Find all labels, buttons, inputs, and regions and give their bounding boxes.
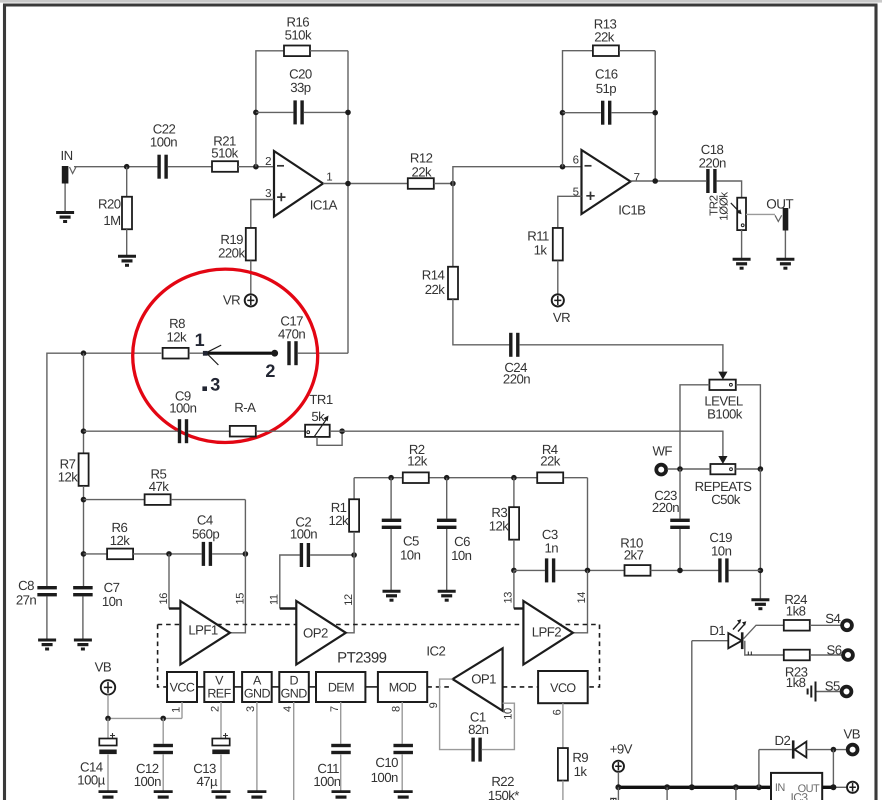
node junction line A / left vertical: [81, 350, 87, 356]
svg-text:C8: C8: [18, 578, 34, 593]
connector WF: [656, 465, 666, 475]
svg-text:560p: 560p: [192, 526, 219, 541]
IC2 dashed outline right edge: [588, 625, 600, 687]
node junction C2/R1: [351, 552, 357, 558]
pin box D GND: [279, 672, 309, 702]
regulator IC3: [771, 773, 822, 800]
wire OP1 pin10 loop right: [482, 703, 515, 749]
wire C23 to R10 line: [679, 529, 681, 570]
wire VB feed down to regulator output: [832, 750, 834, 788]
wire pin14 drop to LPF2 output: [573, 570, 588, 632]
resistor R5: [145, 494, 171, 505]
pin 3 stub: [256, 702, 258, 791]
svg-text:82n: 82n: [468, 722, 489, 737]
svg-text:OUT: OUT: [766, 197, 793, 212]
resistor R2: [403, 472, 429, 483]
resistor R21: [212, 161, 238, 172]
potentiometer REPEATS C50k: [710, 464, 735, 474]
wire C23 stem: [679, 469, 681, 519]
TR1 wiper loop wire: [317, 431, 342, 445]
wire C3 left: [514, 569, 545, 571]
capacitor C7: [73, 586, 93, 589]
wire C6 to ground: [446, 529, 448, 591]
wire LEVEL left end down: [680, 385, 709, 469]
svg-text:47k: 47k: [149, 479, 170, 494]
wire line B to REPEATS pot: [330, 431, 723, 456]
resistor R12: [408, 178, 434, 189]
svg-text:DEM: DEM: [328, 681, 354, 695]
svg-text:10n: 10n: [711, 544, 732, 559]
svg-text:10n: 10n: [451, 548, 472, 563]
capacitor C23: [670, 519, 690, 522]
svg-text:V: V: [215, 673, 224, 687]
svg-text:C7: C7: [104, 580, 120, 595]
node junction VB/C14: [105, 716, 111, 722]
svg-text:WF: WF: [652, 444, 672, 459]
node junction after R12: [450, 181, 456, 187]
resistor R7: [79, 453, 89, 486]
svg-text:10n: 10n: [102, 594, 123, 609]
pin 8 stub: [401, 702, 403, 744]
wire IN to junction: [74, 166, 157, 168]
svg-text:LPF1: LPF1: [188, 622, 218, 637]
svg-text:1k8: 1k8: [786, 604, 806, 619]
internal block OP1: [453, 648, 503, 711]
ground under C6: [438, 591, 456, 600]
ground under C14 (partial): [99, 792, 118, 798]
capacitor C6: [437, 519, 457, 522]
svg-text:12k: 12k: [328, 513, 349, 528]
wire R10 to C19: [651, 569, 719, 571]
svg-text:7: 7: [329, 706, 341, 712]
svg-text:2: 2: [265, 361, 275, 381]
node junction C16 left: [560, 110, 566, 116]
op-amp IC1B: [582, 150, 631, 214]
capacitor C18: [706, 169, 709, 193]
node junction pin14: [585, 568, 591, 574]
node junction C19 right: [758, 568, 764, 574]
ground under C11 (partial): [332, 792, 351, 798]
TR1 wiper arrow: [314, 420, 326, 438]
svg-text:S5: S5: [825, 679, 840, 694]
wire REPEATS right end: [735, 468, 760, 470]
node junction bus 4: [733, 784, 739, 790]
wire WF to REPEATS: [667, 468, 710, 470]
connector S5: [842, 687, 852, 697]
capacitor C8: [37, 586, 57, 589]
connector S6: [843, 650, 853, 660]
wire D1 anode feed: [692, 640, 729, 642]
trimmer TR2 100k: [737, 198, 746, 230]
wire OP1 pin9 loop left: [440, 679, 472, 750]
bus stub 1: [617, 787, 619, 800]
wire R5 line left: [84, 499, 145, 501]
wire IC1A output: [323, 183, 408, 185]
wire pin16 drop: [168, 554, 170, 609]
node junction IC1B inverting input: [560, 164, 566, 170]
pin 4 stub: [293, 702, 295, 800]
svg-text:B100k: B100k: [707, 406, 743, 421]
resistor R6: [107, 549, 133, 560]
svg-text:51p: 51p: [596, 81, 617, 96]
node junction bus 2: [664, 784, 670, 790]
input jack IN: [62, 166, 69, 184]
resistor R13: [593, 45, 619, 56]
wire R14 to C24: [453, 299, 510, 345]
capacitor C12: [153, 744, 173, 747]
svg-text:220n: 220n: [699, 155, 726, 170]
svg-text:IC1A: IC1A: [310, 197, 338, 212]
svg-text:PT2399: PT2399: [337, 649, 386, 666]
wire R12 to junction: [434, 183, 453, 185]
svg-text:10: 10: [503, 708, 515, 720]
clipped text fragment at bottom edge: [611, 798, 616, 800]
capacitor C3: [545, 558, 548, 582]
resistor R19: [246, 228, 256, 261]
svg-text:13: 13: [502, 592, 514, 604]
capacitor C16: [601, 101, 604, 125]
svg-text:1M: 1M: [103, 213, 120, 228]
wire pin15 vertical (R5 corner to LPF1 output): [230, 500, 246, 633]
wire to output terminal: [833, 786, 847, 788]
node junction C5: [388, 475, 394, 481]
svg-text:12: 12: [343, 594, 355, 606]
wire pin13 drop: [513, 570, 515, 608]
IC2 dashed segments between pin boxes: [197, 686, 204, 688]
capacitor C20: [293, 100, 296, 124]
connector S4: [842, 620, 852, 630]
node junction IC1B output: [652, 178, 658, 184]
capacitor C13 (electrolytic): [212, 739, 229, 746]
wire C24 to LEVEL pot: [519, 345, 723, 372]
wire D2 riser: [758, 750, 760, 788]
wire R1 vertical top: [353, 478, 355, 500]
svg-text:1: 1: [326, 171, 332, 183]
svg-text:12k: 12k: [489, 519, 510, 534]
node junction +9V: [615, 784, 621, 790]
node junction C6: [444, 475, 450, 481]
svg-text:22k: 22k: [540, 453, 561, 468]
ground under C13 (partial): [212, 792, 231, 798]
IC1A plus sign: [277, 193, 285, 201]
node 3 marker: [202, 386, 207, 391]
svg-text:TR1: TR1: [309, 392, 332, 407]
wire R11 to VR terminal: [557, 261, 559, 295]
wire C10 to ground: [401, 754, 403, 791]
svg-text:3: 3: [265, 188, 271, 200]
wire C12 to ground: [162, 754, 164, 791]
svg-text:22k: 22k: [411, 164, 432, 179]
resistor R4: [537, 472, 563, 483]
IC2 dashed outline top edge: [158, 624, 600, 626]
node junction REPEATS right: [758, 466, 764, 472]
capacitor C14 stem: [107, 718, 109, 739]
pin box DEM: [316, 672, 365, 702]
svg-text:OP2: OP2: [303, 625, 328, 640]
svg-text:22k: 22k: [594, 29, 615, 44]
wire R4 right corner down to pin14 line: [587, 478, 589, 571]
wire VB to VCC pin1: [107, 695, 109, 719]
svg-text:150k*: 150k*: [488, 788, 519, 800]
svg-text:1: 1: [195, 330, 205, 350]
wire R6 to pin16 junction: [133, 553, 202, 555]
svg-text:R11: R11: [527, 229, 549, 244]
svg-text:VR: VR: [553, 310, 570, 325]
pin 1 stub: [181, 702, 183, 718]
wire C8 to ground: [46, 597, 48, 640]
wire IC1B output to C18: [631, 180, 707, 182]
wire bias bus: [354, 477, 403, 479]
bus stub 4: [735, 787, 737, 800]
svg-text:C50k: C50k: [711, 492, 741, 507]
capacitor C5: [382, 519, 402, 522]
wire feedback left vertical to R16: [256, 51, 284, 167]
node junction at IC1A inverting input: [253, 164, 259, 170]
pin 2 stub / C13 stem: [220, 702, 222, 740]
pin box VCO: [538, 671, 588, 703]
wire IC3 out (thick): [822, 786, 833, 789]
svg-text:12k: 12k: [166, 330, 187, 345]
capacitor C24: [509, 333, 512, 357]
svg-text:IC2: IC2: [426, 644, 445, 659]
wire R8 to node 1: [189, 352, 205, 354]
wire C9 to R-A: [188, 430, 230, 432]
svg-text:C10: C10: [375, 755, 398, 770]
IC1B plus sign: [586, 192, 594, 200]
node junction C20 right: [345, 110, 351, 116]
wire C18 to TR2: [717, 181, 742, 198]
wire pin13 jog to LPF2: [514, 607, 524, 609]
node junction C12 tap: [160, 716, 166, 722]
wire D1 cathode to S6 branch: [745, 641, 784, 655]
node junction C9 line: [81, 428, 87, 434]
node junction C16 right: [652, 110, 658, 116]
terminal regulated output: [847, 782, 858, 793]
wire C11 to ground: [340, 754, 342, 791]
svg-text:C6: C6: [454, 534, 470, 549]
svg-text:22k: 22k: [425, 282, 446, 297]
svg-text:3: 3: [210, 374, 220, 394]
svg-text:1k: 1k: [534, 243, 548, 258]
svg-text:A: A: [253, 673, 262, 687]
LEVEL pot wiper arrow: [718, 372, 727, 380]
IC1B minus sign: [585, 165, 592, 167]
svg-text:S6: S6: [826, 642, 841, 657]
pin box A GND: [242, 672, 272, 702]
ground under R20: [118, 256, 136, 265]
node junction D2 riser: [756, 784, 762, 790]
node 2 marker: [271, 350, 278, 357]
wire R-A to TR1: [256, 430, 305, 432]
node junction D1 feed: [689, 784, 695, 790]
svg-text:6: 6: [552, 709, 564, 715]
svg-text:12k: 12k: [58, 470, 79, 485]
probe cursor at node 1: [208, 345, 222, 365]
wire LEVEL right end down: [736, 385, 761, 469]
svg-text:8: 8: [391, 706, 403, 712]
internal block LPF1: [180, 601, 230, 665]
node junction C23 bottom: [677, 568, 683, 574]
wire chassis to S5: [817, 691, 841, 693]
node junction C20 left: [253, 110, 259, 116]
wire C16 right: [612, 112, 656, 114]
capacitor C2: [300, 543, 303, 567]
svg-text:5k: 5k: [311, 409, 325, 424]
svg-text:470n: 470n: [278, 326, 305, 341]
wire pin16 jog to LPF1: [169, 607, 180, 609]
ground under repeats branch: [751, 600, 769, 609]
IC2 dashed outline left edge: [158, 625, 167, 687]
ground under OUT jack: [776, 259, 794, 268]
svg-text:2: 2: [265, 156, 271, 168]
svg-text:OP1: OP1: [471, 672, 496, 687]
wire junction to R20: [126, 167, 128, 197]
wire R7 to C7: [83, 486, 85, 586]
svg-text:LPF2: LPF2: [532, 624, 562, 639]
op-amp IC1A: [274, 151, 323, 217]
svg-text:220n: 220n: [652, 500, 679, 515]
pin box MOD: [378, 672, 427, 702]
svg-text:510k: 510k: [285, 27, 312, 42]
svg-text:D2: D2: [775, 733, 791, 748]
svg-text:C5: C5: [403, 534, 419, 549]
IC1A minus sign: [277, 165, 284, 167]
node junction pin15 vertical: [243, 551, 249, 557]
wire C5 to ground: [390, 529, 392, 591]
wire TR2 bottom to ground: [741, 230, 743, 259]
capacitor C5 stem: [390, 478, 392, 519]
capacitor C17: [287, 341, 290, 365]
wire C14 to ground: [107, 755, 109, 792]
svg-text:VB: VB: [844, 726, 861, 741]
node junction IC1A output: [345, 181, 351, 187]
node junction R5 line: [81, 497, 87, 503]
svg-text:100n: 100n: [313, 774, 340, 789]
svg-text:GND: GND: [244, 686, 271, 700]
wire R3 stem top: [513, 478, 515, 507]
wire R20 to ground: [126, 229, 128, 256]
node junction R3 top: [511, 475, 517, 481]
svg-text:GND: GND: [281, 686, 308, 700]
wire R13 to output vertical: [619, 50, 655, 52]
resistor R-A: [230, 426, 256, 437]
ground under C5: [383, 591, 401, 600]
power bus (thick): [618, 786, 771, 789]
wire IC1A pin3 to R19: [251, 200, 274, 229]
wire C17 to IC1A output vertical: [298, 352, 348, 354]
wire C20 right: [304, 111, 348, 113]
wire C7 to ground: [82, 597, 84, 640]
node junction IC3 out: [830, 784, 836, 790]
resistor R20: [122, 197, 132, 230]
wire junction up to IC1B pin6: [453, 167, 582, 184]
svg-text:IN: IN: [61, 148, 73, 163]
svg-text:9: 9: [428, 702, 440, 708]
capacitor C4: [202, 542, 205, 566]
wire C3 to pin14 junction: [555, 569, 625, 571]
wire bus riser to D2 cathode: [759, 749, 792, 751]
IC2 dashed segment OP1 to VCO: [503, 686, 538, 688]
resistor R8: [163, 348, 189, 359]
capacitor C12 stem: [162, 718, 164, 743]
bus stub 2: [666, 787, 668, 800]
svg-text:510k: 510k: [211, 145, 238, 160]
ground under C12 (partial): [154, 792, 173, 798]
svg-text:1: 1: [170, 707, 182, 713]
wire TR2 wiper to OUT jack: [746, 213, 775, 215]
node junction WF/C23: [677, 466, 683, 472]
wire junction down to R14: [452, 184, 454, 267]
internal block OP2: [296, 601, 346, 665]
svg-text:D: D: [289, 673, 298, 687]
page border frame: [0, 0, 882, 3]
svg-text:220k: 220k: [218, 246, 245, 261]
node junction IN/R20: [124, 164, 130, 170]
IC2 dashed segment MOD to OP1: [427, 686, 452, 688]
capacitor C9: [178, 419, 181, 443]
wire output vertical of IC1B: [654, 51, 656, 181]
svg-text:10n: 10n: [400, 547, 421, 562]
wire feedback left vertical to R13: [563, 51, 593, 167]
capacitor C10: [393, 744, 413, 747]
node junction R6 line: [81, 551, 87, 557]
wire R5 to right corner: [171, 499, 246, 501]
svg-text:47µ: 47µ: [196, 774, 218, 789]
svg-text:S4: S4: [825, 611, 840, 626]
svg-text:R22: R22: [491, 774, 514, 789]
wire R6 line left: [84, 553, 108, 555]
trimmer TR1 5k: [305, 425, 330, 437]
resistor R3: [509, 507, 519, 540]
svg-text:6: 6: [573, 154, 579, 166]
svg-text:1n: 1n: [545, 540, 559, 555]
wire pin11 jog to OP2: [280, 607, 297, 609]
svg-text:7: 7: [634, 172, 640, 184]
wire R16 to output vertical: [310, 50, 348, 52]
svg-text:1k8: 1k8: [786, 675, 806, 690]
svg-text:IN: IN: [775, 782, 786, 794]
capacitor C1: [471, 738, 474, 762]
svg-text:14: 14: [576, 592, 588, 604]
svg-text:D1: D1: [709, 623, 725, 638]
wire OUT jack to ground: [784, 231, 786, 259]
wire R19 to VR terminal: [250, 261, 252, 295]
wire C13 to ground: [220, 755, 222, 792]
wire line B left segment: [84, 430, 178, 432]
wire IC1B pin5 to R11: [558, 196, 582, 228]
resistor R24: [784, 620, 810, 631]
svg-text:11: 11: [268, 594, 280, 605]
svg-text:1ØØk: 1ØØk: [718, 192, 730, 221]
svg-text:16: 16: [158, 593, 170, 605]
wire R3 bottom to pin13 junction: [513, 540, 515, 571]
resistor R1: [349, 499, 359, 532]
wire C2 line left / pin11 drop: [280, 555, 300, 609]
chassis stub for S5: [808, 682, 816, 702]
resistor R16: [284, 46, 310, 57]
wire D1 cathode to S4 branch: [744, 625, 785, 639]
wire output vertical of IC1A: [347, 51, 349, 353]
svg-text:12k: 12k: [407, 453, 428, 468]
resistor R10: [625, 565, 651, 576]
wire C4 to pin15 vertical: [212, 553, 245, 555]
resistor R9: [558, 748, 568, 781]
wire left vertical (R8 node down thru R7): [83, 353, 85, 452]
svg-text:IC1B: IC1B: [618, 203, 646, 218]
LED D1: [728, 633, 742, 648]
svg-text:IC3: IC3: [790, 791, 808, 800]
svg-text:3: 3: [245, 706, 257, 712]
